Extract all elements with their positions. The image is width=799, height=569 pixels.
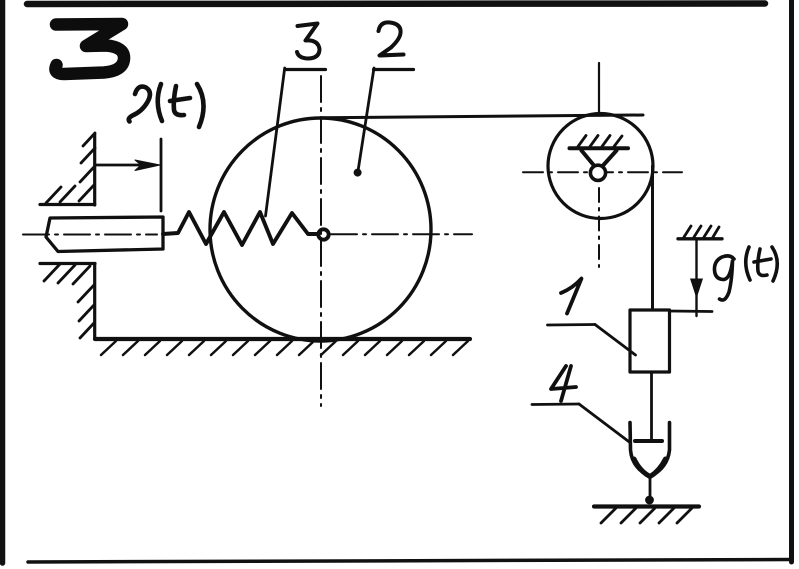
frame top border [27,0,765,7]
q(t) ceiling hatching [684,226,719,237]
label s(t) [129,84,204,127]
q(t) anchor ceiling [678,237,722,240]
disc vertical centerline [320,76,322,406]
label 1 [561,279,582,314]
label q(t) [714,247,777,300]
label 2 underline [374,68,414,71]
pulley horizontal centerline [523,171,682,173]
upper wall hatching [46,133,95,203]
ground hatching [101,341,468,355]
label 4 [551,366,576,401]
label 4 leader [579,404,630,443]
rope vertical [651,166,654,309]
rope horizontal [322,115,643,118]
ground under damper [594,504,699,508]
measurement tick line [160,139,163,211]
frame left border [0,0,5,563]
damper cylinder cup [630,423,670,477]
ground under disc [95,337,470,341]
damper rod [650,372,653,441]
label 1 leader [595,325,636,356]
piston centerline [23,234,157,236]
displacement arrow s(t) [95,164,152,167]
label 3 underline [285,68,326,71]
problem number 3 (big bold) [55,24,124,74]
pulley support hatching [578,136,622,147]
q(t) force arrow [695,240,697,316]
piston block [46,217,163,252]
label 2 leader [358,68,374,171]
disc horizontal centerline [331,233,472,235]
lower wall [40,264,95,340]
label 3 [297,24,320,59]
frame right border [789,0,794,562]
damper ground hatching [601,508,692,523]
damper stem [649,477,652,500]
block top line to arrow [670,310,713,313]
pulley vertical centerline [598,63,600,115]
lower wall hatching [44,264,94,338]
pulley axle pin [590,165,605,180]
label 2 [379,22,404,55]
label 1 underline [548,323,596,326]
block 1 [630,310,670,372]
spring hub pivot [318,229,328,239]
frame bottom border [28,560,790,563]
pulley support legs [582,151,617,166]
label 4 underline [532,403,579,406]
disc 2 (large circle) [210,118,431,341]
spring 3 [163,212,317,245]
damper piston plate [635,439,662,443]
damper ground pin [645,496,654,505]
label 2 dot [354,169,362,177]
pulley support bar [570,146,629,150]
label 3 leader [266,68,285,216]
upper wall (left) [40,134,95,205]
pulley [548,114,653,219]
